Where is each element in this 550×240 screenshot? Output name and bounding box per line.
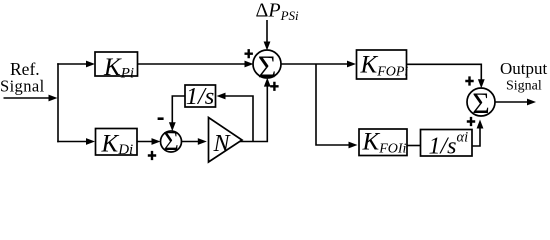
wire: branch vertical line: [57, 63, 59, 142]
svg-text:Signal: Signal: [506, 78, 542, 93]
svg-text:N: N: [213, 131, 232, 157]
wire: K_Di to S2: [137, 138, 161, 145]
summing junction S1: [253, 49, 281, 85]
label "Ref. Signal": [0, 59, 45, 96]
svg-text:Signal: Signal: [0, 77, 45, 96]
wire: N output up into S1: [240, 78, 271, 142]
wire: dP_PSi arrow down into S1: [264, 20, 271, 51]
label "Output Signal": [500, 59, 548, 93]
svg-text:1/s: 1/s: [186, 83, 215, 110]
sign + (N input to S1): [270, 82, 278, 91]
wire: tap from N output to 1/s input: [217, 93, 254, 142]
wire: 1/s^ai output up into S3: [472, 120, 484, 147]
wire: S1 output to K_FOPi: [281, 61, 357, 68]
sign + (K_FOPi input to S3): [465, 76, 473, 85]
sign - (1/s input to S2): [158, 117, 164, 120]
svg-text:Output: Output: [500, 59, 548, 78]
sign + (K_Di input to S2): [148, 151, 156, 160]
block K_Di: [96, 129, 138, 159]
wire: 1/s output down into S2: [169, 96, 185, 131]
wire: branch to K_Di: [57, 138, 95, 145]
svg-text:Σ: Σ: [472, 87, 489, 120]
block 1/s^ai: [421, 130, 473, 160]
wire: K_Pi to summing junction S1: [138, 61, 254, 68]
sign + (1/s^ai input to S3): [467, 117, 475, 126]
wire: K_FOIi to 1/s^ai: [407, 145, 422, 147]
svg-text:Σ: Σ: [163, 126, 179, 156]
summing junction S2: [161, 126, 182, 156]
wire: branch down to K_FOIi: [316, 64, 358, 148]
wire: input arrow from Ref. Signal into branch node: [4, 95, 58, 102]
amplifier N (triangle): [209, 118, 243, 163]
wire: S2 to N: [182, 138, 207, 145]
sign + (K_Pi input to S1): [245, 49, 253, 58]
block K_FOIi: [359, 129, 407, 157]
wire: output arrow: [495, 99, 537, 106]
wire: branch to K_Pi: [57, 61, 95, 68]
block K_FOPi: [357, 50, 409, 80]
summing junction S3: [467, 87, 495, 120]
wire: K_FOPi output down into S3: [407, 64, 485, 88]
block 1/s: [185, 83, 216, 110]
block K_Pi: [95, 52, 138, 82]
